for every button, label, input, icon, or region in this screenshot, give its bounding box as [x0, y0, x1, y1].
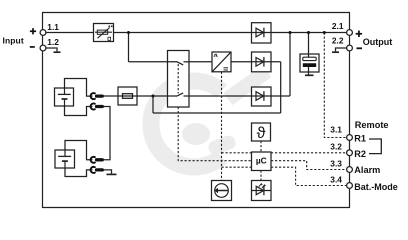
- svg-text:1.1: 1.1: [47, 22, 59, 32]
- svg-text:Input: Input: [3, 36, 24, 46]
- svg-text:3.4: 3.4: [330, 175, 342, 185]
- svg-text:ϑ: ϑ: [257, 125, 266, 142]
- svg-text:2.1: 2.1: [332, 21, 344, 31]
- svg-text:Remote: Remote: [355, 120, 389, 130]
- svg-text:Output: Output: [363, 37, 393, 47]
- svg-text:R2: R2: [354, 149, 366, 159]
- svg-text:3.2: 3.2: [330, 141, 342, 151]
- svg-text:µC: µC: [256, 156, 267, 166]
- svg-text:R1: R1: [354, 133, 366, 143]
- svg-text:1.2: 1.2: [47, 37, 59, 47]
- svg-text:3.3: 3.3: [330, 159, 342, 169]
- svg-text:2.2: 2.2: [332, 35, 344, 45]
- svg-text:Bat.-Mode: Bat.-Mode: [354, 182, 398, 192]
- svg-text:Alarm: Alarm: [354, 165, 380, 175]
- svg-text:3.1: 3.1: [330, 124, 342, 134]
